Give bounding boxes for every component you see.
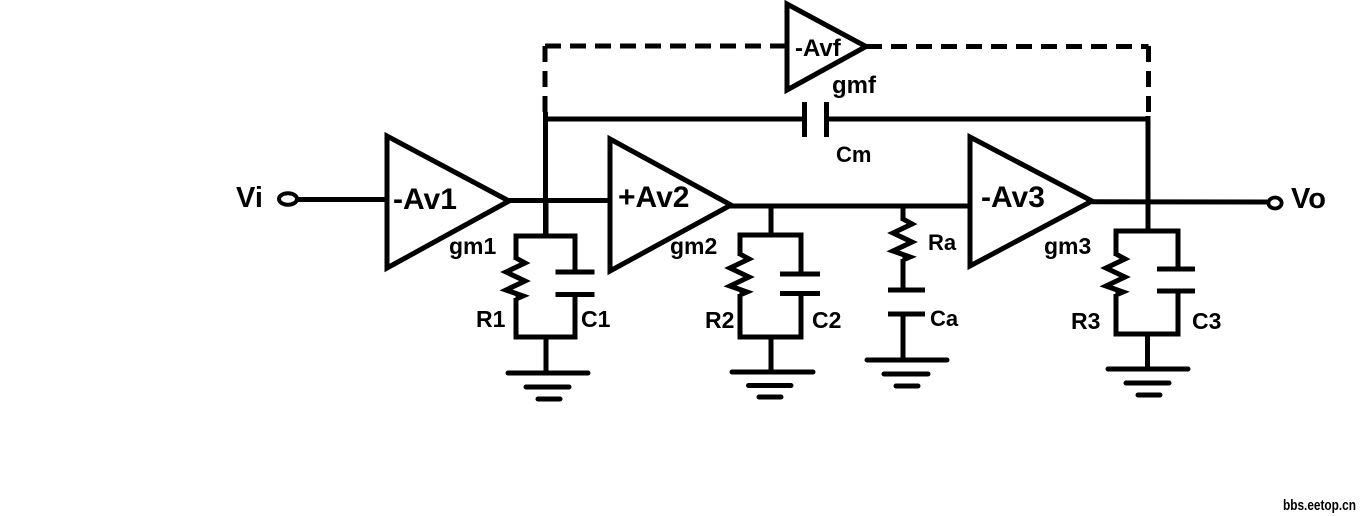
svg-text:R1: R1 bbox=[476, 306, 506, 332]
svg-text:C3: C3 bbox=[1192, 308, 1221, 334]
svg-text:gm1: gm1 bbox=[449, 233, 497, 259]
svg-text:C1: C1 bbox=[581, 306, 611, 332]
svg-text:Cm: Cm bbox=[836, 142, 871, 167]
svg-text:R2: R2 bbox=[705, 307, 734, 333]
svg-text:gm2: gm2 bbox=[670, 233, 717, 259]
svg-text:-Av3: -Av3 bbox=[981, 181, 1045, 214]
svg-text:R3: R3 bbox=[1071, 308, 1100, 334]
svg-text:Ra: Ra bbox=[928, 230, 957, 255]
svg-text:-Avf: -Avf bbox=[795, 35, 842, 62]
svg-text:+Av2: +Av2 bbox=[618, 181, 689, 214]
svg-text:gmf: gmf bbox=[832, 72, 877, 99]
svg-text:Vo: Vo bbox=[1291, 183, 1326, 215]
svg-text:-Av1: -Av1 bbox=[393, 183, 457, 216]
svg-text:gm3: gm3 bbox=[1044, 233, 1091, 259]
svg-text:Vi: Vi bbox=[236, 182, 263, 214]
svg-text:Ca: Ca bbox=[930, 306, 959, 331]
svg-text:bbs.eetop.cn: bbs.eetop.cn bbox=[1283, 497, 1356, 514]
svg-text:C2: C2 bbox=[812, 307, 841, 333]
